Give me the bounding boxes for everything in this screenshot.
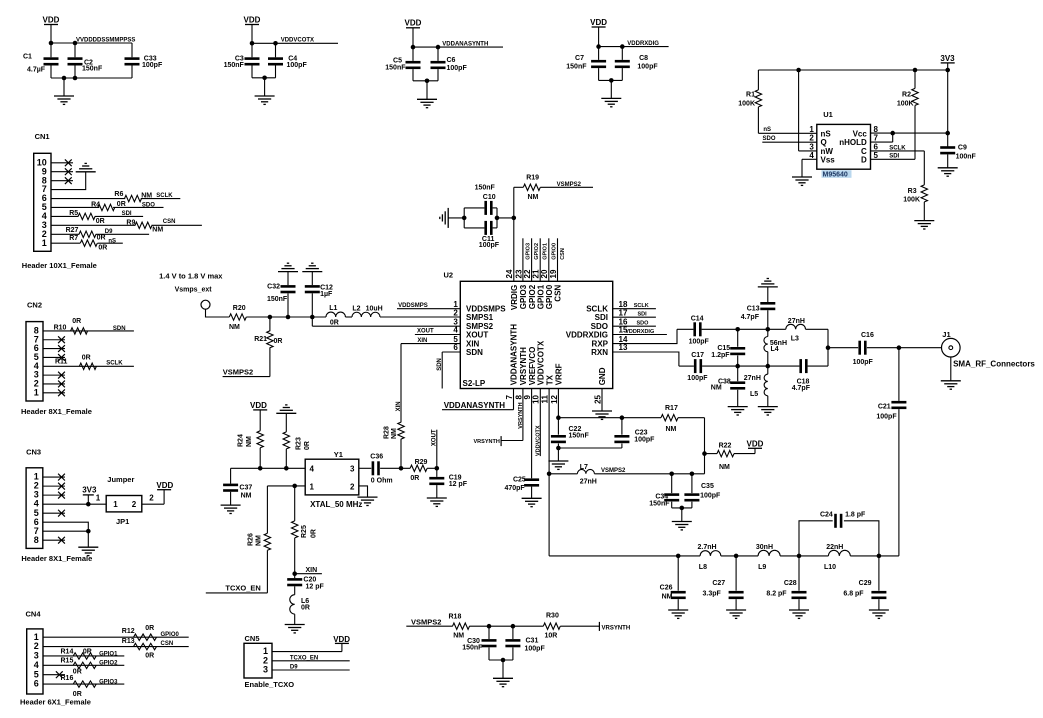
svg-text:100nF: 100nF <box>956 153 977 160</box>
svg-text:13: 13 <box>619 343 628 352</box>
svg-text:D9: D9 <box>105 229 113 235</box>
svg-text:C7: C7 <box>575 55 584 62</box>
svg-text:27nH: 27nH <box>744 375 761 382</box>
svg-text:Enable_TCXO: Enable_TCXO <box>245 680 295 689</box>
svg-text:0R: 0R <box>97 234 106 241</box>
svg-text:GPIO3: GPIO3 <box>519 284 528 309</box>
svg-text:8: 8 <box>34 326 39 336</box>
svg-text:SDI: SDI <box>889 154 899 160</box>
svg-text:CN1: CN1 <box>35 132 50 141</box>
svg-text:30nH: 30nH <box>756 544 773 551</box>
svg-text:CSN: CSN <box>560 248 566 260</box>
svg-text:3: 3 <box>42 220 47 230</box>
svg-text:R6: R6 <box>114 191 123 198</box>
svg-text:L4: L4 <box>771 346 779 353</box>
svg-text:R17: R17 <box>665 405 678 412</box>
svg-text:NM: NM <box>666 426 677 433</box>
svg-text:CN5: CN5 <box>245 634 260 643</box>
svg-text:C8: C8 <box>639 55 648 62</box>
svg-text:4.7pF: 4.7pF <box>792 385 811 392</box>
svg-text:GPIO3: GPIO3 <box>525 243 531 260</box>
svg-text:TCXO_EN: TCXO_EN <box>225 584 260 593</box>
svg-text:R22: R22 <box>719 442 732 449</box>
svg-text:SMA_RF_Connectors: SMA_RF_Connectors <box>953 360 1035 369</box>
svg-text:Header 8X1_Female: Header 8X1_Female <box>21 407 92 416</box>
svg-text:Header 10X1_Female: Header 10X1_Female <box>22 261 97 270</box>
svg-text:12: 12 <box>550 394 559 403</box>
svg-text:0R: 0R <box>410 475 419 482</box>
svg-text:9: 9 <box>42 166 47 176</box>
svg-text:R12: R12 <box>122 628 135 635</box>
svg-text:R25: R25 <box>301 525 308 538</box>
svg-text:150nF: 150nF <box>462 644 483 651</box>
svg-text:23: 23 <box>514 269 523 278</box>
svg-text:R13: R13 <box>122 638 135 645</box>
svg-text:100pF: 100pF <box>525 646 546 653</box>
svg-text:R21: R21 <box>254 336 267 343</box>
svg-text:150nF: 150nF <box>267 296 288 303</box>
svg-text:0 Ohm: 0 Ohm <box>371 478 393 485</box>
svg-text:8: 8 <box>874 125 879 134</box>
svg-text:R2: R2 <box>902 91 911 98</box>
svg-text:NM: NM <box>711 384 722 391</box>
svg-text:SDO: SDO <box>637 321 650 327</box>
svg-text:2: 2 <box>149 494 154 503</box>
svg-text:GND: GND <box>598 367 607 385</box>
svg-text:10R: 10R <box>545 632 558 639</box>
svg-text:R20: R20 <box>233 305 246 312</box>
svg-text:XOUT: XOUT <box>466 330 488 339</box>
svg-text:3: 3 <box>350 465 355 474</box>
svg-text:C21: C21 <box>878 404 891 411</box>
svg-text:100pF: 100pF <box>687 375 708 382</box>
svg-text:SCLK: SCLK <box>156 193 173 199</box>
svg-text:VDDSMPS: VDDSMPS <box>398 303 428 309</box>
svg-text:VDDVCOTX: VDDVCOTX <box>537 340 546 385</box>
svg-text:0R: 0R <box>274 338 283 345</box>
svg-text:TCXO_EN: TCXO_EN <box>290 655 318 661</box>
svg-text:R7: R7 <box>69 235 78 242</box>
svg-text:VDD: VDD <box>333 635 350 644</box>
svg-text:150nF: 150nF <box>475 185 496 192</box>
svg-text:3: 3 <box>263 665 268 675</box>
svg-text:9: 9 <box>523 394 532 399</box>
svg-text:1: 1 <box>42 238 47 248</box>
svg-text:R30: R30 <box>546 613 559 620</box>
svg-text:GPIO2: GPIO2 <box>534 243 540 260</box>
svg-text:VRSYNTH: VRSYNTH <box>519 347 528 385</box>
svg-text:VSMPS2: VSMPS2 <box>601 468 626 474</box>
svg-text:1: 1 <box>310 482 315 491</box>
svg-text:3V3: 3V3 <box>940 54 955 63</box>
svg-text:NM: NM <box>391 428 398 439</box>
svg-text:SMPS1: SMPS1 <box>466 313 494 322</box>
svg-text:C15: C15 <box>717 345 730 352</box>
svg-text:R14: R14 <box>61 648 74 655</box>
svg-text:6.8 pF: 6.8 pF <box>843 590 864 597</box>
svg-text:NM: NM <box>719 464 730 471</box>
svg-text:0R: 0R <box>73 668 82 675</box>
svg-text:nS: nS <box>108 239 116 245</box>
svg-text:8: 8 <box>514 394 523 399</box>
svg-text:VDDVCOTX: VDDVCOTX <box>281 38 314 44</box>
svg-text:6: 6 <box>42 193 47 203</box>
svg-text:C13: C13 <box>747 305 760 312</box>
svg-text:VDD: VDD <box>590 18 607 27</box>
svg-text:150nF: 150nF <box>569 433 590 440</box>
svg-text:100K: 100K <box>903 197 920 204</box>
svg-text:NM: NM <box>152 227 163 234</box>
svg-text:VRRF: VRRF <box>555 363 564 385</box>
svg-text:VSMPS2: VSMPS2 <box>411 617 441 626</box>
svg-text:150nF: 150nF <box>82 66 103 73</box>
svg-text:SDI: SDI <box>638 312 648 318</box>
svg-text:0R: 0R <box>301 605 310 612</box>
svg-text:R9: R9 <box>126 219 135 226</box>
svg-text:XIN: XIN <box>396 401 402 411</box>
svg-text:R24: R24 <box>237 434 244 447</box>
svg-text:Header 6X1_Female: Header 6X1_Female <box>20 698 91 707</box>
svg-text:150nF: 150nF <box>224 62 245 69</box>
svg-text:8: 8 <box>42 175 47 185</box>
svg-text:R28: R28 <box>384 426 391 439</box>
svg-text:GPIO0: GPIO0 <box>545 284 554 309</box>
svg-text:CN4: CN4 <box>26 610 42 619</box>
svg-text:VDD: VDD <box>405 19 422 28</box>
svg-text:SDN: SDN <box>466 348 483 357</box>
svg-text:Vsmps_ext: Vsmps_ext <box>175 287 213 294</box>
svg-text:C35: C35 <box>701 483 714 490</box>
svg-text:470pF: 470pF <box>504 485 525 492</box>
svg-text:CSN: CSN <box>554 285 563 302</box>
svg-text:L1: L1 <box>329 305 337 312</box>
svg-text:VDD: VDD <box>43 15 60 24</box>
svg-text:2: 2 <box>132 500 137 509</box>
svg-text:VDDANASYNTH: VDDANASYNTH <box>442 42 488 48</box>
svg-text:SDN: SDN <box>113 326 126 332</box>
svg-text:5: 5 <box>42 202 47 212</box>
svg-text:VRSYNTH: VRSYNTH <box>518 402 524 428</box>
svg-text:C14: C14 <box>691 315 704 322</box>
svg-text:1.2pF: 1.2pF <box>711 352 730 359</box>
svg-text:Jumper: Jumper <box>107 475 134 484</box>
svg-text:XIN: XIN <box>417 338 427 344</box>
svg-text:L8: L8 <box>699 564 707 571</box>
svg-text:C27: C27 <box>712 580 725 587</box>
svg-text:150nF: 150nF <box>385 65 406 72</box>
svg-text:R5: R5 <box>69 210 78 217</box>
svg-text:XTAL_50 MHz: XTAL_50 MHz <box>310 500 362 509</box>
svg-text:12 pF: 12 pF <box>306 584 325 591</box>
svg-text:4: 4 <box>809 151 814 160</box>
svg-text:C25: C25 <box>513 476 526 483</box>
svg-text:R11: R11 <box>55 359 68 366</box>
svg-text:4: 4 <box>310 465 315 474</box>
svg-text:U2: U2 <box>444 271 454 280</box>
svg-text:C16: C16 <box>861 332 874 339</box>
svg-text:2: 2 <box>453 308 458 317</box>
svg-text:R29: R29 <box>415 459 428 466</box>
svg-text:L3: L3 <box>791 336 799 343</box>
svg-text:VRDIG: VRDIG <box>510 285 519 310</box>
svg-text:SDI: SDI <box>122 211 132 217</box>
svg-text:VDDRXDIG: VDDRXDIG <box>627 41 659 47</box>
svg-text:0R: 0R <box>311 529 318 538</box>
svg-text:GPIO1: GPIO1 <box>99 651 118 657</box>
svg-text:1: 1 <box>34 387 39 397</box>
svg-text:25: 25 <box>593 394 602 403</box>
svg-text:L7: L7 <box>580 464 588 471</box>
svg-text:R10: R10 <box>54 324 67 331</box>
svg-text:nS: nS <box>821 129 832 138</box>
svg-text:CSN: CSN <box>161 641 174 647</box>
svg-text:M95640: M95640 <box>823 172 848 179</box>
svg-text:RXN: RXN <box>591 348 608 357</box>
svg-text:R18: R18 <box>449 613 462 620</box>
svg-text:SCLK: SCLK <box>106 360 123 366</box>
svg-text:NM: NM <box>662 594 673 601</box>
svg-text:L5: L5 <box>750 391 758 398</box>
svg-text:C28: C28 <box>784 580 797 587</box>
svg-text:0R: 0R <box>98 244 107 251</box>
svg-text:C17: C17 <box>691 352 704 359</box>
svg-text:10uH: 10uH <box>366 305 383 312</box>
svg-text:20: 20 <box>540 269 549 278</box>
svg-text:7: 7 <box>34 334 39 344</box>
svg-text:0R: 0R <box>145 652 154 659</box>
svg-text:8.2 pF: 8.2 pF <box>766 590 787 597</box>
svg-text:3.3pF: 3.3pF <box>703 590 722 597</box>
svg-text:100K: 100K <box>897 100 914 107</box>
svg-text:CN2: CN2 <box>27 300 42 309</box>
svg-text:Vcc: Vcc <box>853 129 868 138</box>
svg-text:C34: C34 <box>655 493 668 500</box>
svg-text:150nF: 150nF <box>649 501 670 508</box>
svg-text:nHOLD: nHOLD <box>839 138 867 147</box>
svg-text:150nF: 150nF <box>566 64 587 71</box>
svg-text:7: 7 <box>874 134 879 143</box>
svg-text:7: 7 <box>505 394 514 399</box>
svg-text:C9: C9 <box>958 145 967 152</box>
svg-text:6: 6 <box>453 343 458 352</box>
svg-text:22nH: 22nH <box>826 544 843 551</box>
svg-text:4.7pF: 4.7pF <box>741 314 760 321</box>
svg-text:Header 8X1_Female: Header 8X1_Female <box>21 554 92 563</box>
svg-text:4.7µF: 4.7µF <box>27 66 46 73</box>
svg-text:100pF: 100pF <box>689 338 710 345</box>
svg-text:6: 6 <box>34 343 39 353</box>
svg-text:SCLK: SCLK <box>634 303 649 309</box>
svg-text:R19: R19 <box>526 174 539 181</box>
svg-text:VDD: VDD <box>747 439 764 448</box>
svg-text:4: 4 <box>453 326 458 335</box>
svg-text:Q: Q <box>821 138 827 147</box>
svg-text:R27: R27 <box>66 227 79 234</box>
svg-text:R23: R23 <box>296 437 303 450</box>
svg-text:U1: U1 <box>823 110 833 119</box>
svg-text:VRSYNTH: VRSYNTH <box>602 626 631 632</box>
svg-text:VDD: VDD <box>156 481 173 490</box>
svg-text:R26: R26 <box>247 533 254 546</box>
svg-text:0R: 0R <box>72 318 81 325</box>
svg-text:VDDVCOTX: VDDVCOTX <box>535 425 541 456</box>
svg-text:C36: C36 <box>370 453 383 460</box>
svg-text:L10: L10 <box>824 564 836 571</box>
svg-text:4: 4 <box>42 211 47 221</box>
svg-text:XOUT: XOUT <box>417 329 434 335</box>
svg-text:C6: C6 <box>447 57 456 64</box>
svg-text:GPIO0: GPIO0 <box>551 243 557 260</box>
svg-text:100pF: 100pF <box>479 242 500 249</box>
svg-text:NM: NM <box>528 194 539 201</box>
svg-text:10: 10 <box>37 157 47 167</box>
svg-text:11: 11 <box>541 394 550 403</box>
svg-text:SCLK: SCLK <box>889 145 906 151</box>
svg-text:R4: R4 <box>91 201 100 208</box>
svg-text:L9: L9 <box>758 564 766 571</box>
svg-text:24: 24 <box>505 269 514 278</box>
svg-text:SDN: SDN <box>437 358 443 371</box>
svg-text:C32: C32 <box>267 283 280 290</box>
svg-text:NM: NM <box>229 324 240 331</box>
svg-text:NM: NM <box>246 436 253 447</box>
svg-text:VDD: VDD <box>244 15 261 24</box>
svg-text:VSMPS2: VSMPS2 <box>557 182 582 188</box>
svg-text:XIN: XIN <box>306 567 318 574</box>
svg-text:VVDDDDSSMMPPSS: VVDDDDSSMMPPSS <box>76 37 135 43</box>
svg-text:19: 19 <box>549 269 558 278</box>
svg-text:3: 3 <box>34 370 39 380</box>
svg-text:VDD: VDD <box>250 401 267 410</box>
svg-text:Vss: Vss <box>821 155 836 164</box>
svg-text:J1: J1 <box>942 330 950 339</box>
svg-text:TX: TX <box>545 374 554 385</box>
svg-text:C24: C24 <box>820 512 833 519</box>
svg-text:CN3: CN3 <box>26 448 41 457</box>
svg-text:D9: D9 <box>290 665 298 671</box>
svg-text:1: 1 <box>96 494 101 503</box>
svg-text:10: 10 <box>532 394 541 403</box>
svg-text:Y1: Y1 <box>334 450 343 459</box>
svg-text:100pF: 100pF <box>447 65 468 72</box>
svg-text:5: 5 <box>874 151 879 160</box>
svg-text:SDI: SDI <box>595 313 608 322</box>
svg-text:7: 7 <box>42 184 47 194</box>
svg-text:VSMPS2: VSMPS2 <box>223 368 253 377</box>
svg-text:2.7nH: 2.7nH <box>698 544 717 551</box>
svg-text:NM: NM <box>241 493 252 500</box>
svg-text:R1: R1 <box>746 91 755 98</box>
svg-text:VDDANASYNTH: VDDANASYNTH <box>444 401 506 410</box>
svg-text:1: 1 <box>113 500 118 509</box>
svg-text:4: 4 <box>34 361 39 371</box>
svg-text:nS: nS <box>763 127 771 133</box>
svg-text:D: D <box>861 155 867 164</box>
svg-text:100pF: 100pF <box>876 414 897 421</box>
svg-text:0R: 0R <box>82 354 91 361</box>
svg-text:1µF: 1µF <box>320 291 333 298</box>
svg-text:C31: C31 <box>526 638 539 645</box>
svg-text:2: 2 <box>809 134 814 143</box>
svg-text:GPIO1: GPIO1 <box>543 243 549 260</box>
svg-text:NM: NM <box>453 632 464 639</box>
svg-text:R15: R15 <box>61 658 74 665</box>
svg-text:C29: C29 <box>859 580 872 587</box>
svg-text:6: 6 <box>34 679 39 689</box>
svg-text:R16: R16 <box>61 675 74 682</box>
svg-text:27nH: 27nH <box>580 479 597 486</box>
svg-text:GPIO2: GPIO2 <box>99 660 118 666</box>
svg-text:1.4 V to 1.8 V max: 1.4 V to 1.8 V max <box>159 271 223 280</box>
svg-text:VDDANASYNTH: VDDANASYNTH <box>510 324 519 386</box>
svg-text:12 pF: 12 pF <box>449 481 468 488</box>
svg-text:VDDRXDIG: VDDRXDIG <box>625 329 654 335</box>
svg-text:C10: C10 <box>483 194 496 201</box>
svg-text:0R: 0R <box>304 441 311 450</box>
svg-text:100pF: 100pF <box>853 359 874 366</box>
svg-text:SDO: SDO <box>142 202 155 208</box>
svg-text:100pF: 100pF <box>634 437 655 444</box>
svg-text:2: 2 <box>42 229 47 239</box>
svg-text:CSN: CSN <box>163 219 176 225</box>
svg-text:NM: NM <box>141 193 152 200</box>
svg-text:SDO: SDO <box>763 136 776 142</box>
svg-text:C26: C26 <box>660 585 673 592</box>
svg-text:NM: NM <box>255 535 262 546</box>
svg-text:8: 8 <box>34 535 39 545</box>
svg-text:S2-LP: S2-LP <box>463 379 486 388</box>
svg-text:0R: 0R <box>83 648 92 655</box>
svg-text:VDDRXDIG: VDDRXDIG <box>566 330 608 339</box>
svg-text:100K: 100K <box>738 100 755 107</box>
svg-text:C1: C1 <box>23 54 32 61</box>
svg-text:2: 2 <box>350 482 355 491</box>
svg-text:100pF: 100pF <box>142 62 163 69</box>
svg-text:100pF: 100pF <box>637 64 658 71</box>
svg-text:1.8 pF: 1.8 pF <box>845 512 866 519</box>
svg-text:C5: C5 <box>393 57 402 64</box>
svg-text:GPIO0: GPIO0 <box>161 632 180 638</box>
svg-text:XOUT: XOUT <box>431 429 437 446</box>
svg-text:C20: C20 <box>303 576 316 583</box>
svg-text:JP1: JP1 <box>116 517 129 526</box>
svg-text:C37: C37 <box>239 485 252 492</box>
svg-text:0R: 0R <box>117 201 126 208</box>
svg-text:5: 5 <box>34 352 39 362</box>
svg-text:100pF: 100pF <box>287 62 308 69</box>
svg-text:100pF: 100pF <box>700 492 721 499</box>
svg-text:1: 1 <box>809 125 814 134</box>
svg-text:2: 2 <box>34 379 39 389</box>
svg-text:0R: 0R <box>145 625 154 632</box>
svg-text:0R: 0R <box>96 218 105 225</box>
svg-text:GPIO3: GPIO3 <box>99 680 118 686</box>
svg-text:17: 17 <box>619 308 628 317</box>
svg-text:R3: R3 <box>908 188 917 195</box>
svg-text:VREFVCO: VREFVCO <box>528 347 537 386</box>
svg-text:27nH: 27nH <box>788 318 805 325</box>
svg-text:VRSYNTH: VRSYNTH <box>474 439 500 445</box>
svg-text:0R: 0R <box>330 320 339 327</box>
svg-text:L2: L2 <box>352 305 360 312</box>
